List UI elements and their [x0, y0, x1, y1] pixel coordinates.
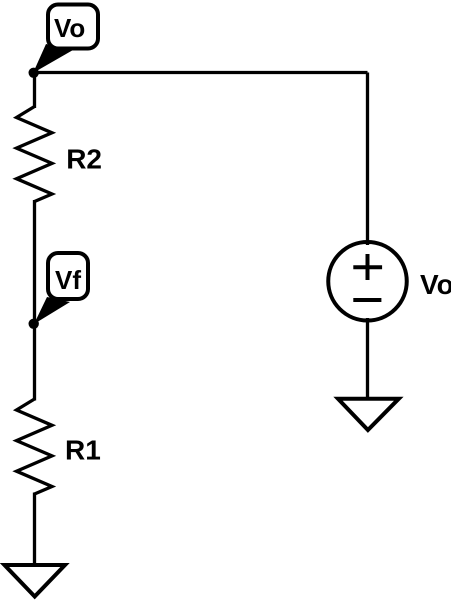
wire: node Vf down to resistor R1: [33, 324, 36, 401]
wire: node Vo down to resistor R2: [33, 73, 36, 109]
ground symbol (right, below voltage source): [338, 399, 399, 430]
wire: top horizontal from node Vo to voltage source branch: [35, 71, 368, 74]
svg-text:Vo: Vo: [420, 269, 451, 300]
wire: resistor R2 to node Vf: [33, 200, 36, 324]
wire: voltage source bottom terminal to ground: [366, 318, 369, 399]
node Vf (junction dot, mid left): [29, 319, 39, 329]
wire: resistor R1 down to ground: [33, 493, 36, 566]
node label Vo (callout box): [48, 5, 98, 49]
callout pointer for node label Vo: [33, 44, 73, 73]
node label Vf (callout box): [48, 253, 88, 299]
svg-text:R1: R1: [65, 434, 101, 465]
voltage source V1 (circle): [328, 242, 407, 321]
resistor R1 (zigzag): [17, 399, 53, 494]
plus sign of voltage source: [353, 254, 382, 280]
ground symbol (bottom left): [5, 565, 66, 597]
minus sign of voltage source: [353, 298, 381, 302]
node Vo (junction dot, top left): [29, 68, 39, 78]
wire: right vertical down to voltage source top terminal: [366, 73, 369, 246]
callout pointer for node label Vf: [34, 297, 70, 324]
resistor R2 (zigzag): [17, 107, 53, 202]
svg-text:Vo: Vo: [54, 13, 85, 43]
svg-text:Vf: Vf: [55, 265, 81, 295]
svg-text:R2: R2: [66, 143, 102, 174]
